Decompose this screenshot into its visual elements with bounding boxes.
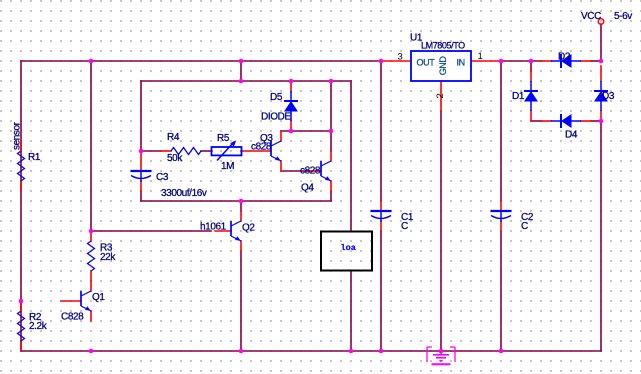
svg-text:1: 1 xyxy=(478,51,483,62)
pin Q1 base xyxy=(61,300,81,302)
diode D1 xyxy=(524,81,538,111)
junction rail at load xyxy=(349,349,354,354)
op-amp U1 regulator box xyxy=(411,51,471,81)
pin D2 right-anode xyxy=(581,60,591,62)
ground xyxy=(427,347,455,364)
pin C1 bottom xyxy=(380,222,382,231)
svg-text:3: 3 xyxy=(398,52,403,63)
junction bridge bottom-right xyxy=(599,119,604,124)
pin D5 top xyxy=(290,81,292,91)
wire x=351 box corner to load xyxy=(350,81,352,231)
capacitor C1 xyxy=(371,211,392,222)
svg-text:c828: c828 xyxy=(300,165,321,176)
junction Q2 collector node xyxy=(239,199,244,204)
pin R5 right / Q3 base xyxy=(241,150,271,152)
wire Q2 emitter to rail xyxy=(240,251,242,351)
pin U1 pin1 xyxy=(471,60,501,62)
wire y=61 right section xyxy=(501,60,541,62)
wire bottom rail y=351 xyxy=(21,350,601,352)
svg-text:D1: D1 xyxy=(512,91,525,102)
junction top net at x=241 xyxy=(239,59,244,64)
pin U1 pin2 xyxy=(440,81,442,111)
wire Q3 emitter to Q4 base y=171 xyxy=(281,170,309,172)
pin D1 top xyxy=(530,69,532,81)
pin D4 left-cathode xyxy=(541,120,551,122)
pin R1 top xyxy=(20,141,22,151)
diode D5 xyxy=(284,91,298,121)
diode D4 xyxy=(551,114,581,128)
svg-text:3300uf/16v: 3300uf/16v xyxy=(161,188,207,199)
pin U1 pin3 xyxy=(381,60,411,62)
pin C2 top xyxy=(500,201,502,211)
capacitor C2 xyxy=(491,211,512,222)
junction U1 pin1 / C2 xyxy=(499,59,504,64)
junction C3 / R4 node xyxy=(139,149,144,154)
pin D4 right-anode xyxy=(581,120,591,122)
svg-text:c828: c828 xyxy=(251,141,272,152)
junction D5 anode xyxy=(289,79,294,84)
svg-text:D4: D4 xyxy=(565,130,578,141)
pin C3 top xyxy=(140,151,142,171)
junction R2 / Q1 base node xyxy=(19,299,24,304)
pin C3 bottom xyxy=(140,182,142,191)
svg-text:2: 2 xyxy=(435,94,446,99)
svg-text:LM7805/TO: LM7805/TO xyxy=(421,41,465,51)
junction y=81 net at x=241 xyxy=(239,79,244,84)
svg-text:R4: R4 xyxy=(167,132,180,143)
svg-text:R1: R1 xyxy=(28,152,41,163)
svg-text:Q1: Q1 xyxy=(92,292,105,303)
resistor R4 xyxy=(171,148,201,155)
junction y=81 net at x=331 xyxy=(329,79,334,84)
pin Q3 emitter xyxy=(280,161,282,171)
wire left rail x=21 xyxy=(20,61,22,351)
junction rail at C1 xyxy=(379,349,384,354)
capacitor C3 xyxy=(131,171,152,182)
svg-text:C3: C3 xyxy=(156,172,169,183)
wire x=381 to C1 xyxy=(380,61,382,201)
pin C1 top xyxy=(380,201,382,211)
wire load bottom to rail xyxy=(350,271,352,351)
resistor R2 xyxy=(18,311,25,341)
load box xyxy=(321,232,372,271)
svg-text:R5: R5 xyxy=(217,133,230,144)
pin Q2 emitter xyxy=(240,241,242,251)
pin R2 bottom xyxy=(20,341,22,351)
junction R3 / Q2 base node xyxy=(89,229,94,234)
pin R3 bottom xyxy=(90,271,92,281)
transistor Q4 xyxy=(321,161,331,181)
wire Q4 emitter drop xyxy=(330,191,332,201)
wire x=241 top stub xyxy=(240,61,242,81)
resistor R3 xyxy=(88,241,95,271)
svg-text:D2: D2 xyxy=(558,52,571,63)
junction top net at U1 pin3 xyxy=(379,59,384,64)
svg-text:Q4: Q4 xyxy=(301,183,314,194)
svg-text:sensor: sensor xyxy=(11,121,22,150)
wire D1 top stub xyxy=(530,61,532,71)
wire D2 right to corner xyxy=(591,60,601,62)
pin R1 bottom xyxy=(20,181,22,191)
pin D3 top xyxy=(600,66,602,81)
junction bridge top-right VCC xyxy=(599,59,604,64)
svg-text:C828: C828 xyxy=(61,312,84,323)
junction rail at Q2 emitter xyxy=(239,349,244,354)
wire top net y=61 xyxy=(21,60,381,62)
junction rail at ground xyxy=(439,349,444,354)
junction top net at x=91 xyxy=(89,59,94,64)
wire VCC drop xyxy=(600,24,602,61)
svg-text:50k: 50k xyxy=(167,153,183,164)
svg-text:2.2k: 2.2k xyxy=(29,321,48,332)
wire C3 bottom segment xyxy=(140,191,142,201)
wire x=331 from y=81 to Q4 collector xyxy=(330,81,332,151)
pin C2 bottom xyxy=(500,222,502,231)
svg-text:C: C xyxy=(521,221,528,232)
wire U1 GND to ground xyxy=(440,111,442,351)
potentiometer R5 xyxy=(212,142,242,161)
svg-text:1M: 1M xyxy=(221,161,234,172)
diode D3 xyxy=(594,81,608,111)
junction rail at Q1 emitter xyxy=(89,349,94,354)
wire Q2 collector stub xyxy=(240,201,242,211)
wire box left x=141 xyxy=(140,81,142,151)
svg-text:IN: IN xyxy=(457,57,465,67)
svg-text:OUT: OUT xyxy=(417,57,436,67)
pin R4 left xyxy=(161,150,171,152)
svg-text:Q2: Q2 xyxy=(242,222,255,233)
junction rail at C2 xyxy=(499,349,504,354)
pin Q4 collector xyxy=(330,151,332,161)
resistor R1 xyxy=(18,151,25,181)
pin Q2 base xyxy=(215,230,231,232)
wire C2 bottom to rail xyxy=(500,231,502,351)
pin Q2 collector xyxy=(240,211,242,221)
pin Q3 collector xyxy=(280,131,282,141)
wire y=131 D5 bottom net xyxy=(281,130,331,132)
svg-text:loa: loa xyxy=(341,243,356,253)
wire x=501 to C2 xyxy=(500,61,502,201)
pin R2 top xyxy=(20,301,22,311)
transistor Q1 xyxy=(81,291,91,311)
pin Q4 emitter xyxy=(330,181,332,191)
svg-text:GND: GND xyxy=(438,56,448,76)
junction bridge top-left D1 xyxy=(529,59,534,64)
svg-text:5-6v: 5-6v xyxy=(614,11,632,22)
pin D1 bottom xyxy=(530,111,532,121)
wire x=601 bridge to rail xyxy=(600,121,602,351)
wire C1 bottom to rail xyxy=(380,231,382,351)
pin D5 bottom xyxy=(290,121,292,131)
pin Q1 emitter xyxy=(90,311,92,321)
svg-text:22k: 22k xyxy=(100,252,116,263)
svg-text:VCC: VCC xyxy=(581,11,601,22)
wire bridge bottom left xyxy=(531,120,541,122)
wire R4 to R5 xyxy=(201,150,212,152)
wire Q2 base net y=231 xyxy=(91,230,211,232)
wire R4 left stub xyxy=(141,150,161,152)
wire box bottom y=201 xyxy=(141,200,331,202)
svg-text:C: C xyxy=(401,221,408,232)
svg-text:D3: D3 xyxy=(602,91,615,102)
pin Q1 collector xyxy=(90,281,92,291)
transistor Q2 xyxy=(231,221,241,241)
svg-text:DIODE: DIODE xyxy=(261,111,291,122)
pin R3 top xyxy=(90,231,92,241)
wire bridge bottom right xyxy=(591,120,601,122)
VCC power port xyxy=(598,19,604,25)
junction D5 cathode node xyxy=(289,129,294,134)
pin Q4 base xyxy=(309,170,321,172)
transistor Q3 xyxy=(271,141,281,161)
junction Q4 collector node xyxy=(329,129,334,134)
svg-text:h1061: h1061 xyxy=(200,222,227,233)
pin D2 left-cathode xyxy=(541,60,551,62)
wire box top y=81 xyxy=(141,80,351,82)
pin D3 bottom xyxy=(600,111,602,121)
svg-text:D5: D5 xyxy=(270,92,283,103)
diode D2 xyxy=(551,54,581,68)
wire x=91 from top to Q2 base net xyxy=(90,61,92,231)
